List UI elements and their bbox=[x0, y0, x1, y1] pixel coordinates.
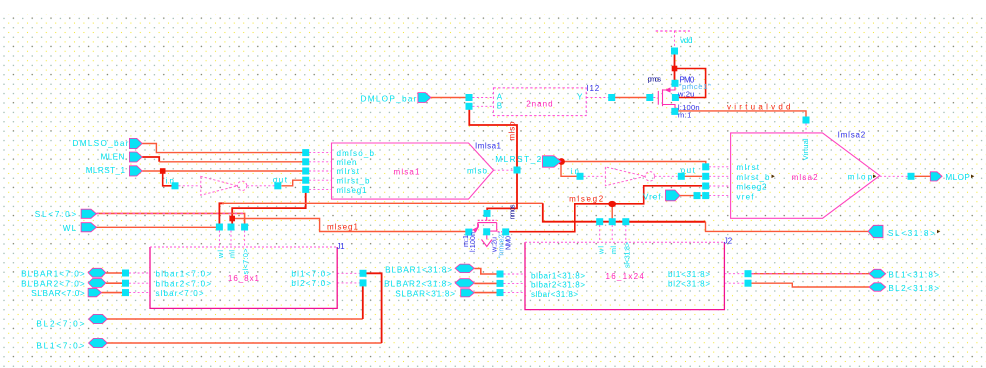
wire stub mlsa1 mlrst_b bbox=[309, 179, 332, 181]
node mlsa1 pin squares bbox=[302, 149, 309, 156]
svg-text:BLBAR1<7:0>: BLBAR1<7:0> bbox=[21, 270, 85, 279]
svg-text:sl<7:0>: sl<7:0> bbox=[241, 248, 250, 274]
node J2 blbar1 square bbox=[497, 271, 504, 278]
node nmos drain square bbox=[484, 210, 491, 217]
power vdd bar bbox=[656, 30, 690, 32]
svg-text:wl: wl bbox=[216, 250, 225, 259]
svg-text:blbar1<31:8>: blbar1<31:8> bbox=[531, 271, 585, 280]
svg-text:Imlsa2: Imlsa2 bbox=[838, 131, 866, 140]
wire stub mlsa2 virtual bbox=[805, 124, 807, 133]
wire SL<31:8> from J2 area to pin bbox=[626, 221, 706, 223]
pin SL<31:8> (points left) bbox=[868, 225, 883, 237]
wire stub J2 sl bbox=[625, 225, 627, 242]
node mlseg1 junction bbox=[229, 216, 235, 222]
wire J2.bl2 to BL2<31:8> bbox=[752, 283, 870, 287]
wire stub mlsa1 dmlso_b bbox=[309, 152, 332, 154]
pin WL bbox=[81, 223, 96, 232]
svg-text:MLRST_1: MLRST_1 bbox=[86, 166, 126, 175]
wire vdd to pmos source bbox=[674, 51, 676, 84]
wire stub J2 bl1 bbox=[724, 273, 744, 275]
node J1 sl square bbox=[241, 224, 248, 231]
wire MLEN to mlsa1.mlen bbox=[159, 161, 306, 163]
wire J2.bl1 to BL1<31:8> bbox=[752, 273, 870, 275]
svg-text:BLBAR2<31:8>: BLBAR2<31:8> bbox=[384, 279, 452, 288]
node virtualvdd square bbox=[803, 117, 810, 124]
svg-text:WL: WL bbox=[63, 224, 77, 233]
svg-text:out: out bbox=[273, 176, 288, 185]
wire SLBAR<7:0> bbox=[102, 292, 124, 294]
wire nand B net to mlso column and nmos drain bbox=[469, 106, 517, 211]
wire WL riser bbox=[219, 203, 224, 224]
wire DMLSO_bar to mlsa1.dmlso_b bbox=[142, 144, 306, 153]
node mlsa2 mlrst_b square bbox=[702, 173, 709, 180]
wire inverter1 out to mlsa1.mlrst_b bbox=[282, 180, 303, 186]
svg-text:nmos: nmos bbox=[507, 204, 516, 219]
node J1 wl square bbox=[216, 224, 223, 231]
wire mlseg1 riser from mlsa1.mlseg1 bbox=[232, 189, 306, 227]
svg-text:MLEN: MLEN bbox=[101, 153, 125, 162]
wire stub inverter2 out bbox=[655, 175, 678, 177]
wire WL long run bbox=[222, 202, 543, 204]
svg-text:MLOP: MLOP bbox=[945, 173, 970, 182]
block J2 16_1x24 bbox=[525, 242, 724, 309]
wire MLEN stub bbox=[142, 157, 159, 162]
svg-text:DMLOP_bar: DMLOP_bar bbox=[361, 94, 417, 103]
svg-text:DMLSO_bar: DMLSO_bar bbox=[73, 139, 129, 148]
node nmos source square bbox=[483, 228, 490, 235]
wire BL1<31:8> bus dash overlay bbox=[752, 273, 867, 275]
svg-text:mlrst_b: mlrst_b bbox=[337, 177, 371, 186]
svg-text:B: B bbox=[497, 101, 502, 110]
wire stub mlsa1 mlseg1 bbox=[309, 188, 332, 190]
svg-text:BL1<7:0>: BL1<7:0> bbox=[36, 342, 84, 351]
pin SL<7:0> bbox=[81, 209, 96, 218]
wire MLRST_2 to mlsa2.mlrst bbox=[561, 162, 706, 165]
node J2 sl square bbox=[622, 218, 629, 225]
wire stub J1 bl2 bbox=[337, 282, 359, 284]
wire Vref to mlsa2.vref bbox=[680, 195, 702, 197]
svg-text:mlseg1: mlseg1 bbox=[337, 186, 368, 195]
wire stub mlsa2 mlrst_b bbox=[709, 175, 731, 177]
pin Vref bbox=[666, 190, 681, 201]
node J2 blbar2 square bbox=[497, 280, 504, 287]
wire pmos bulk loop bbox=[675, 69, 706, 98]
pin MLRST_1 bbox=[129, 166, 142, 176]
wire BL1 riser bbox=[366, 273, 382, 343]
node J1 blbar1 square bbox=[122, 270, 129, 277]
svg-text:mlseg2: mlseg2 bbox=[569, 194, 604, 203]
node mlop square bbox=[908, 173, 915, 180]
svg-text:slbar<7:0>: slbar<7:0> bbox=[156, 289, 204, 298]
wire stub mlsa2 mlrst bbox=[709, 166, 731, 168]
svg-text:NM0: NM0 bbox=[503, 236, 512, 250]
pin BL1<31:8> bbox=[869, 269, 886, 278]
transistor NM0 nmos symbol (rotated) bbox=[472, 216, 502, 247]
node J2 ml square bbox=[609, 218, 616, 225]
node inverter1 out square bbox=[274, 182, 281, 189]
wire SLBAR<31:8> to J2 bbox=[474, 292, 497, 294]
svg-text:mlen: mlen bbox=[337, 158, 357, 167]
svg-text:Imlsa1: Imlsa1 bbox=[475, 142, 502, 151]
wire stub pmos gate bbox=[653, 97, 658, 99]
svg-text:mlrst_b: mlrst_b bbox=[737, 173, 771, 182]
svg-text:slbar<31:8>: slbar<31:8> bbox=[531, 290, 578, 299]
gate 2nand I12 bbox=[493, 88, 586, 116]
wire stub mlsa2 mlseg2 bbox=[709, 185, 731, 187]
node vref wire square bbox=[694, 192, 701, 199]
node mlso output square bbox=[514, 167, 521, 174]
svg-text:mlrst: mlrst bbox=[737, 163, 760, 172]
node nand B square bbox=[466, 103, 473, 110]
wire nand Y to pmos gate bbox=[615, 97, 648, 99]
svg-text:mlseg2: mlseg2 bbox=[737, 183, 768, 192]
node pmos gate square bbox=[646, 94, 653, 101]
transistor PM0 pmos symbol bbox=[658, 86, 675, 108]
svg-text:mlrst: mlrst bbox=[337, 167, 360, 176]
block mlsa2 bbox=[731, 133, 880, 218]
wire WL step down to J2.wl bbox=[543, 203, 626, 221]
node J2 bl1 square bbox=[745, 270, 752, 277]
node inverter2 out square bbox=[678, 173, 685, 180]
node pmos drain square bbox=[671, 108, 678, 115]
wire mlsa2.mlop to MLOP pin bbox=[914, 175, 931, 177]
wire mlseg2 stub to J2.ml bbox=[611, 204, 613, 219]
node MLRST_2 junction bbox=[558, 158, 565, 165]
wire stub J2 bl2 bbox=[724, 282, 744, 284]
wire stub J1 wl bbox=[218, 231, 220, 248]
wire BLBAR1<7:0> bbox=[106, 272, 123, 274]
pin DMLSO_bar bbox=[129, 138, 142, 148]
node J1 ml square bbox=[228, 224, 235, 231]
svg-text:BL2<31:8>: BL2<31:8> bbox=[888, 284, 939, 293]
svg-text:mlseg1: mlseg1 bbox=[327, 223, 359, 232]
wire stub mlsa2 vref bbox=[709, 195, 731, 197]
wire stub mlsa2 mlop bbox=[880, 175, 908, 177]
svg-text:mlso: mlso bbox=[508, 121, 517, 141]
inverter 2 bbox=[605, 167, 654, 186]
wire DMLOP_bar to nand A bbox=[431, 97, 466, 99]
svg-text:BLBAR1<31:8>: BLBAR1<31:8> bbox=[385, 266, 452, 275]
svg-text:mlso: mlso bbox=[467, 167, 488, 176]
wire stub J2 wl bbox=[599, 225, 601, 242]
svg-text:16_1x24: 16_1x24 bbox=[606, 272, 645, 281]
wire stub J1 blbar2 bbox=[129, 282, 150, 284]
wire SL<7:0> to J1.sl bbox=[97, 213, 245, 224]
wire stub vdd bar bbox=[674, 31, 676, 48]
wire MLRST_1 branch to inverter in bbox=[163, 171, 172, 186]
wire MLRST_1 to mlsa1.mlrst bbox=[142, 170, 306, 172]
svg-text:mlsa2: mlsa2 bbox=[792, 173, 819, 182]
pin MLOP bbox=[930, 172, 942, 181]
node nmos gate square bbox=[465, 229, 472, 236]
marker mlop arrow bbox=[873, 175, 876, 179]
pin BL2<7:0> bbox=[89, 314, 108, 323]
node pmos bulk square bbox=[672, 94, 679, 101]
wire BL2<7:0> run bbox=[107, 318, 363, 320]
pin BLBAR1<31:8> bbox=[455, 264, 474, 273]
node nmos bulk square bbox=[502, 228, 509, 235]
wire mlseg1 horizontal to nmos gate bbox=[232, 219, 466, 232]
node mlsa2 vref square bbox=[702, 192, 709, 199]
wire stub J1 blbar1 bbox=[129, 272, 150, 274]
svg-text:blbar2<31:8>: blbar2<31:8> bbox=[531, 281, 585, 290]
wire stub nand A bbox=[473, 97, 494, 99]
svg-text:vref: vref bbox=[737, 192, 755, 201]
svg-text:Vref: Vref bbox=[643, 193, 661, 202]
node inverter2 in square bbox=[577, 173, 584, 180]
svg-text:2nand: 2nand bbox=[526, 100, 552, 109]
wire BLBAR1<31:8> to J2 bbox=[474, 269, 497, 275]
pin BLBAR1<7:0> (inout hexagon) bbox=[88, 268, 106, 277]
wire stub J2 ml bbox=[611, 225, 613, 242]
wire stub inverter1 out bbox=[247, 185, 275, 187]
node mlsa2 mlseg2 square bbox=[702, 183, 709, 190]
wire virtualvdd bbox=[675, 111, 806, 117]
wire mlseg2 from nmos to mlsa2.mlseg2 bbox=[508, 186, 702, 232]
svg-text:in: in bbox=[571, 167, 580, 176]
svg-text:SL<31:8>: SL<31:8> bbox=[888, 229, 935, 238]
wire stub mlsa1 mlen bbox=[309, 161, 332, 163]
wire stub inverter1 in bbox=[179, 185, 201, 187]
svg-text:ml: ml bbox=[609, 246, 618, 254]
svg-text:vdd: vdd bbox=[680, 36, 692, 45]
wire stub J1 sl bbox=[244, 231, 246, 248]
node J1 slbar square bbox=[122, 289, 129, 296]
svg-text:SLBAR<31:8>: SLBAR<31:8> bbox=[395, 290, 455, 299]
svg-text:in: in bbox=[166, 177, 175, 186]
pin DMLOP_bar bbox=[418, 93, 431, 103]
marker mlrst_b arrow bbox=[772, 175, 775, 179]
svg-text:SLBAR<7:0>: SLBAR<7:0> bbox=[31, 289, 85, 298]
pin MLEN bbox=[129, 152, 142, 162]
wire stub J2 blbar1 bbox=[504, 273, 526, 275]
svg-text:w:2u: w:2u bbox=[677, 90, 694, 99]
marker MLOP arrow bbox=[971, 175, 974, 179]
svg-text:Y: Y bbox=[577, 92, 583, 101]
wire stub mlsa1 mlrst bbox=[309, 170, 332, 172]
svg-text:mlsa1: mlsa1 bbox=[394, 167, 421, 176]
wire stub mlsa1 output mlso bbox=[494, 169, 514, 171]
svg-text:BL1<31:8>: BL1<31:8> bbox=[888, 271, 939, 280]
pin BLBAR2<31:8> bbox=[455, 279, 474, 288]
svg-text:mlop: mlop bbox=[848, 172, 873, 181]
svg-text:I12: I12 bbox=[586, 84, 599, 93]
pin BLBAR2<7:0> bbox=[88, 279, 106, 288]
wire stub inverter2 in bbox=[584, 175, 606, 177]
wire BL2 riser bbox=[362, 286, 364, 320]
wire stub J1 ml bbox=[230, 231, 232, 248]
node nand Y square bbox=[608, 94, 615, 101]
node inverter1 in square bbox=[172, 182, 179, 189]
node J2 bl2 square bbox=[745, 280, 752, 287]
node J1 bl1 square bbox=[360, 270, 367, 277]
svg-text:BL2<7:0>: BL2<7:0> bbox=[36, 320, 84, 329]
svg-text:Virtual: Virtual bbox=[801, 138, 810, 160]
node mlseg2 junction bbox=[608, 201, 616, 207]
svg-text:BLBAR2<7:0>: BLBAR2<7:0> bbox=[21, 279, 85, 288]
wire stub J2 blbar2 bbox=[504, 282, 526, 284]
node vdd stub square bbox=[671, 48, 678, 55]
svg-text:out: out bbox=[681, 166, 696, 175]
pin MLRST_2 bbox=[543, 156, 562, 167]
node J2 wl square bbox=[596, 218, 603, 225]
node vdd bulk junction bbox=[672, 66, 678, 72]
wire WL to J1.wl bbox=[97, 226, 217, 228]
wire stub nand Y bbox=[586, 97, 608, 99]
svg-text:blbar1<7:0>: blbar1<7:0> bbox=[156, 269, 212, 278]
node pmos source square bbox=[672, 80, 679, 87]
svg-text:bl2<31:8>: bl2<31:8> bbox=[668, 280, 710, 289]
wire inverter2 out to mlsa2.mlrst_b bbox=[684, 175, 702, 177]
node J2 slbar square bbox=[497, 289, 504, 296]
node MLRST_1 junction bbox=[160, 168, 166, 174]
node nand A square bbox=[466, 94, 473, 101]
wire stub J2 slbar bbox=[504, 292, 526, 294]
svg-text:J2: J2 bbox=[724, 237, 733, 246]
wire BL1<7:0> run bbox=[107, 342, 382, 344]
node J1 blbar2 square bbox=[122, 280, 129, 287]
svg-text:sl<31:8>: sl<31:8> bbox=[622, 242, 631, 268]
svg-text:blbar2<7:0>: blbar2<7:0> bbox=[156, 279, 212, 288]
svg-text:pmos: pmos bbox=[648, 75, 662, 84]
wire stub nand B bbox=[473, 105, 494, 107]
node J1 bl2 square bbox=[360, 279, 367, 286]
pin BL1<7:0> bbox=[89, 338, 108, 347]
wire stub J1 slbar bbox=[129, 292, 150, 294]
svg-text:m:1: m:1 bbox=[678, 110, 691, 119]
node mlsa2 mlrst square bbox=[702, 163, 709, 170]
svg-text:A: A bbox=[497, 93, 503, 102]
svg-text:wl: wl bbox=[596, 246, 605, 255]
wire BLBAR2<7:0> bbox=[106, 282, 123, 284]
wire SL<7:0> bus dash overlay bbox=[97, 212, 245, 214]
svg-text:J1: J1 bbox=[337, 242, 346, 251]
wire MLRST_2 branch to inverter2 in bbox=[561, 162, 577, 177]
svg-text:dmlso_b: dmlso_b bbox=[337, 149, 375, 158]
svg-text:l:100n: l:100n bbox=[468, 232, 477, 252]
wire BLBAR2<31:8> to J2 bbox=[474, 282, 497, 284]
pin SLBAR<7:0> bbox=[88, 288, 101, 297]
svg-text:bl1<31:8>: bl1<31:8> bbox=[668, 270, 710, 279]
block J1 16_8x1 bbox=[150, 247, 337, 308]
marker SL<31:8> arrow bbox=[937, 230, 940, 234]
pin SLBAR<31:8> bbox=[461, 289, 475, 297]
svg-text:ml: ml bbox=[228, 250, 237, 258]
block mlsa1 bbox=[332, 143, 494, 199]
inverter 1 bbox=[201, 176, 247, 195]
wire stub J1 bl1 bbox=[337, 272, 359, 274]
pin BL2<31:8> bbox=[869, 283, 886, 291]
